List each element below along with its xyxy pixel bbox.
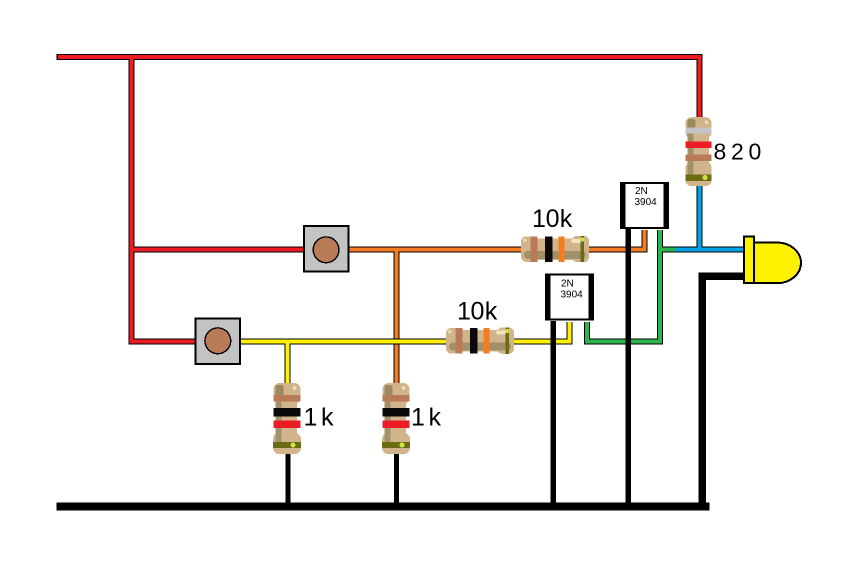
label 10k #2 <box>457 298 498 326</box>
wire red branch fill <box>132 248 305 252</box>
svg-text:0: 0 <box>749 139 762 165</box>
wire green branch to LED node outline <box>660 247 675 253</box>
transistor Q1 2N3904 <box>620 182 669 229</box>
wire black R-1k-2 leg <box>394 450 399 506</box>
svg-text:1: 1 <box>457 298 471 326</box>
resistor R 1k #1 (brown-black-red, vertical) <box>273 383 301 454</box>
wire green Q2-to-Q1 outline <box>587 230 660 342</box>
wire red top rail fill <box>58 57 700 118</box>
label 1k #2 <box>411 404 442 432</box>
wire green Q2-to-Q1 fill <box>587 230 660 342</box>
resistor R820 (gray-red-brown, vertical) <box>685 117 711 186</box>
wire red top rail outline <box>57 57 700 118</box>
svg-text:8: 8 <box>714 139 727 165</box>
wire yellow row2 button2-to-Q2 outline <box>240 322 569 342</box>
wire blue from R820 outline <box>697 185 703 250</box>
wire yellow drop fill <box>286 343 290 384</box>
wire orange row1 fill <box>348 230 645 250</box>
svg-text:0: 0 <box>471 298 485 326</box>
wire black Q2 emitter leg <box>551 321 557 506</box>
wire red left vertical to button2 outline <box>132 56 197 342</box>
svg-text:3904: 3904 <box>635 197 658 208</box>
wire red branch to button1 outline <box>132 247 305 253</box>
wire red left vertical fill <box>132 57 197 342</box>
label 1k #1 <box>304 404 335 432</box>
wire blue vertical fill <box>698 185 702 250</box>
resistor R 10k #1 (brown-black-orange, horizontal) <box>521 236 589 262</box>
wire black LED cathode <box>702 276 744 506</box>
wire orange row1 button1-to-Q1 outline <box>57 56 745 507</box>
LED D1 dome <box>754 243 801 284</box>
svg-text:2N: 2N <box>635 186 648 197</box>
svg-text:1: 1 <box>411 404 425 432</box>
svg-text:2: 2 <box>731 139 744 165</box>
label 820 <box>714 139 762 165</box>
wire blue horizontal fill <box>675 248 744 252</box>
svg-text:k: k <box>485 298 498 326</box>
svg-text:0: 0 <box>546 205 560 233</box>
wire orange drop fill <box>395 248 399 384</box>
pushbutton S2 <box>196 319 241 365</box>
pushbutton S1 <box>304 226 349 272</box>
wire blue to LED outline <box>673 247 744 253</box>
wire black R-1k-1 leg <box>286 450 291 506</box>
wire black ground rail <box>57 503 710 511</box>
svg-text:k: k <box>321 404 334 432</box>
label 10k #1 <box>532 205 573 233</box>
svg-text:2N: 2N <box>561 279 574 290</box>
resistor R 1k #2 (brown-black-red, vertical) <box>382 383 410 454</box>
wire yellow drop to R-1k-1 outline <box>285 342 291 385</box>
transistor Q2 2N3904 <box>545 274 594 321</box>
wire orange drop to R-1k-2 outline <box>394 250 400 385</box>
LED D1 flange <box>744 236 754 283</box>
wire green branch fill <box>660 248 675 252</box>
wire black Q1 emitter leg <box>625 229 631 506</box>
svg-text:1: 1 <box>304 404 318 432</box>
svg-text:1: 1 <box>532 205 546 233</box>
resistor R 10k #2 (brown-black-orange, horizontal) <box>446 328 514 354</box>
svg-text:k: k <box>429 404 442 432</box>
svg-text:k: k <box>560 205 573 233</box>
wire yellow row2 fill <box>240 322 569 342</box>
svg-text:3904: 3904 <box>561 290 584 301</box>
